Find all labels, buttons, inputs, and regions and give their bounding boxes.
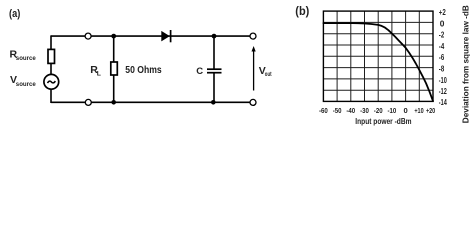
wire R_L branch bottom: [113, 75, 115, 103]
junction node bottom R_L: [111, 100, 116, 105]
svg-text:-50: -50: [333, 106, 342, 115]
x axis tick labels: [319, 106, 435, 115]
svg-text:50 Ohms: 50 Ohms: [125, 64, 162, 76]
svg-text:-12: -12: [439, 86, 447, 96]
svg-text:source: source: [16, 55, 36, 62]
diode D1 cathode bar: [170, 30, 172, 42]
svg-text:0: 0: [440, 18, 445, 28]
y axis tick labels: [439, 7, 447, 107]
wire capacitor branch top: [213, 36, 215, 69]
V_out arrow shaft: [253, 50, 255, 91]
svg-text:-6: -6: [439, 52, 445, 62]
wire left branch top: [50, 35, 52, 50]
svg-text:-10: -10: [439, 75, 447, 85]
svg-text:+10: +10: [414, 106, 423, 115]
svg-text:-40: -40: [346, 106, 355, 115]
svg-text:(a): (a): [9, 8, 21, 20]
capacitor C bottom plate: [207, 72, 222, 74]
svg-text:+20: +20: [426, 106, 435, 115]
wire R_L branch top: [113, 36, 115, 62]
svg-text:C: C: [196, 66, 203, 77]
graph vertical gridlines: [337, 11, 419, 101]
junction node bottom C: [211, 100, 216, 105]
svg-text:source: source: [16, 81, 36, 88]
source V_source circle: [44, 74, 59, 89]
svg-text:-20: -20: [374, 106, 383, 115]
svg-text:Deviation from square law -dB: Deviation from square law -dB: [460, 5, 470, 123]
svg-text:(b): (b): [295, 6, 309, 18]
resistor R_L body: [111, 62, 118, 75]
terminal node top left: [85, 33, 91, 39]
svg-text:out: out: [265, 71, 272, 78]
diode D1 triangle: [161, 31, 170, 42]
terminal node bottom right: [250, 99, 256, 105]
svg-text:+2: +2: [439, 7, 446, 17]
wire bottom rail: [51, 101, 253, 103]
svg-text:0: 0: [403, 106, 407, 115]
graph curve deviation from square law: [323, 23, 433, 101]
svg-text:-8: -8: [439, 64, 445, 74]
svg-text:-30: -30: [360, 106, 369, 115]
junction node top R_L: [111, 34, 116, 39]
graph frame: [323, 11, 433, 101]
terminal node top right: [250, 33, 256, 39]
V_out arrow head: [252, 46, 256, 52]
svg-text:L: L: [97, 71, 101, 78]
svg-text:-14: -14: [439, 97, 447, 107]
source tilde symbol: [48, 81, 56, 83]
svg-text:Input power -dBm: Input power -dBm: [355, 116, 411, 126]
svg-text:-4: -4: [439, 41, 445, 51]
svg-text:-10: -10: [388, 106, 397, 115]
svg-text:-2: -2: [439, 30, 445, 40]
graph horizontal gridlines: [323, 22, 433, 90]
wire top rail: [51, 35, 253, 37]
wire left branch middle: [50, 63, 52, 75]
svg-text:-60: -60: [319, 106, 328, 115]
terminal node bottom left: [85, 99, 91, 105]
capacitor C top plate: [207, 68, 222, 70]
wire capacitor branch bottom: [213, 73, 215, 102]
resistor R_source body: [48, 49, 55, 63]
wire left branch bottom: [50, 89, 52, 103]
junction node top C: [212, 34, 217, 39]
